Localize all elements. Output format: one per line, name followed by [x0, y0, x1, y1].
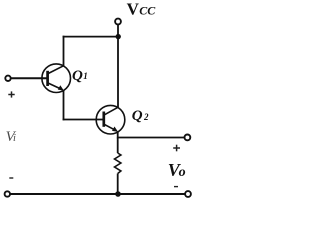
terminal Vcc [115, 19, 121, 25]
transistor Q1 [42, 64, 71, 93]
label Vo [168, 160, 186, 180]
wire to Q2 base [63, 119, 103, 121]
label Vi [6, 129, 17, 145]
junction at Vcc rail [116, 34, 121, 39]
wire bottom rail [10, 193, 185, 195]
net label Vcc [127, 0, 157, 19]
svg-text:Q: Q [132, 108, 143, 124]
wire top horizontal [63, 36, 118, 38]
transistor Q2 [96, 105, 125, 134]
wire Vcc vertical [117, 25, 119, 108]
junction at bottom rail [115, 191, 121, 197]
label minus input [9, 177, 13, 179]
terminal bottom left [5, 191, 10, 196]
label plus input [8, 91, 14, 97]
label minus output [174, 186, 178, 188]
svg-text:o: o [179, 165, 186, 180]
resistor (emitter resistor) [115, 138, 121, 195]
wire input [11, 77, 47, 79]
wire Q1 collector vertical [63, 36, 65, 66]
svg-text:Q: Q [72, 68, 83, 84]
terminal output plus [185, 135, 191, 141]
svg-text:CC: CC [139, 3, 156, 17]
wire Q1 emitter vertical [63, 90, 65, 120]
label Q1 [72, 68, 88, 84]
terminal input plus [5, 76, 10, 81]
label Q2 [132, 108, 149, 124]
label plus output [173, 145, 180, 152]
svg-text:V: V [127, 0, 140, 19]
wire Q2 emitter vertical [117, 132, 119, 139]
svg-text:i: i [13, 133, 16, 144]
svg-text:1: 1 [83, 71, 88, 81]
terminal bottom right [185, 191, 191, 197]
wire output [118, 137, 185, 139]
svg-text:2: 2 [143, 112, 149, 122]
